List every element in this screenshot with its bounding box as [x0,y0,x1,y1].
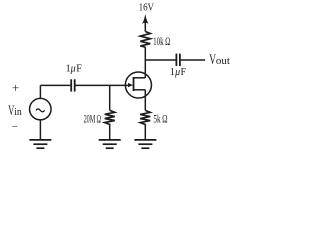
svg-text:5k Ω: 5k Ω [153,111,167,125]
label Vin [8,103,22,119]
wire vin bottom to ground [39,120,41,139]
label 1uF output [170,67,187,78]
resistor RG 20M zigzag [105,110,115,125]
label 5kOhm [153,111,167,125]
transistor Q1 JFET [125,72,151,98]
power supply arrow 16V [142,14,148,32]
svg-text:μ: μ [70,64,76,75]
capacitor C1 1uF input [71,79,75,91]
wire bias branch vertical (gate node to RG) [109,85,111,110]
wire RG bottom to ground [109,126,111,140]
ground under RG [99,140,121,148]
ground under VIN [29,140,51,148]
svg-text:F: F [76,64,82,75]
resistor RD 10k zigzag [140,32,150,48]
source VIN ac source circle [30,98,52,120]
label 20MOhm [84,111,102,125]
svg-text:in: in [14,107,22,118]
wire drain vertical (resistor bottom to transistor drain) [144,47,146,78]
wire output branch horizontal [145,59,175,61]
svg-text:16V: 16V [139,3,155,14]
svg-text:20M Ω: 20M Ω [84,111,102,125]
wire source top to input cap [40,84,70,86]
wire gate horizontal (input cap to gate arrow) [75,84,129,86]
wire vin top stub [39,85,41,98]
svg-text:F: F [181,67,187,78]
capacitor C2 1uF output [176,54,180,66]
resistor RS 5k zigzag [140,110,150,125]
wire capacitor to Vout [181,59,205,61]
svg-text:+: + [12,80,19,95]
label minus [12,121,18,133]
label 10kOhm [153,34,170,48]
wire source vertical (transistor source to RS) [144,90,146,111]
ground under RS [134,140,156,148]
wire RS bottom to ground [144,126,146,140]
node Vout label [209,52,230,68]
node VDD label 16V [139,3,155,14]
label 1uF input [66,64,83,75]
svg-text:10k Ω: 10k Ω [153,34,170,48]
svg-text:−: − [12,121,18,133]
svg-text:μ: μ [174,67,180,78]
svg-text:out: out [216,56,230,67]
label plus [12,80,19,95]
